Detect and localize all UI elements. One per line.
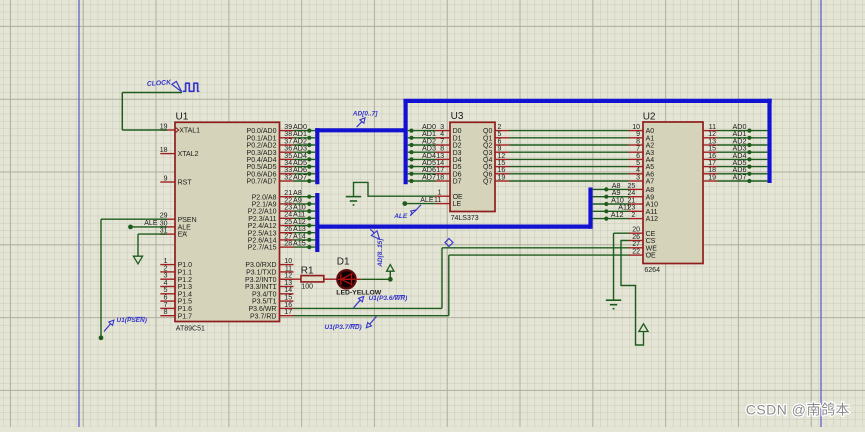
svg-text:9: 9: [498, 146, 502, 153]
svg-text:A12: A12: [646, 216, 659, 223]
svg-text:10: 10: [284, 258, 292, 265]
svg-text:XTAL2: XTAL2: [178, 151, 199, 158]
svg-text:18: 18: [708, 167, 716, 174]
svg-text:36: 36: [284, 146, 292, 153]
svg-text:P1.7: P1.7: [178, 313, 193, 320]
svg-text:3: 3: [636, 174, 640, 181]
svg-text:ALE: ALE: [178, 225, 192, 232]
svg-text:P2.3/A11: P2.3/A11: [248, 216, 276, 223]
svg-text:P0.6/AD6: P0.6/AD6: [247, 171, 277, 178]
svg-text:4: 4: [164, 280, 168, 287]
svg-text:13: 13: [708, 138, 716, 145]
svg-text:7: 7: [440, 138, 444, 145]
svg-text:10: 10: [632, 124, 640, 131]
svg-text:17: 17: [436, 167, 444, 174]
svg-text:ALE: ALE: [144, 220, 158, 227]
svg-text:R1: R1: [301, 265, 314, 276]
svg-text:2: 2: [164, 265, 168, 272]
svg-text:A4: A4: [646, 157, 655, 164]
svg-text:6: 6: [498, 138, 502, 145]
svg-text:P2.2/A10: P2.2/A10: [248, 209, 277, 216]
svg-text:ALE: ALE: [420, 197, 434, 204]
svg-text:22: 22: [632, 249, 640, 256]
svg-text:P1.4: P1.4: [178, 291, 193, 298]
svg-text:Q0: Q0: [483, 128, 492, 135]
svg-text:P3.7/RD: P3.7/RD: [250, 313, 276, 320]
svg-text:6: 6: [636, 153, 640, 160]
svg-text:23: 23: [284, 205, 292, 212]
svg-text:U3: U3: [451, 111, 464, 122]
svg-text:33: 33: [284, 167, 292, 174]
svg-text:5: 5: [498, 131, 502, 138]
svg-text:CS: CS: [646, 238, 656, 245]
svg-text:AD[8..15]: AD[8..15]: [377, 238, 384, 268]
svg-text:26: 26: [632, 234, 640, 241]
svg-text:Q7: Q7: [483, 179, 492, 186]
svg-text:74LS373: 74LS373: [451, 215, 479, 222]
svg-text:P0.5/AD5: P0.5/AD5: [247, 164, 277, 171]
svg-text:28: 28: [284, 241, 292, 248]
svg-text:11: 11: [709, 124, 716, 131]
svg-text:16: 16: [284, 302, 292, 309]
svg-text:1: 1: [437, 190, 441, 197]
svg-text:XTAL1: XTAL1: [179, 128, 200, 135]
svg-text:15: 15: [498, 160, 506, 167]
svg-text:13: 13: [284, 280, 292, 287]
svg-text:1: 1: [164, 258, 168, 265]
svg-text:26: 26: [284, 226, 292, 233]
svg-text:37: 37: [284, 138, 292, 145]
svg-text:17: 17: [708, 160, 716, 167]
svg-text:21: 21: [284, 190, 292, 197]
svg-text:P0.7/AD7: P0.7/AD7: [247, 179, 277, 186]
svg-text:D5: D5: [453, 164, 462, 171]
svg-text:7: 7: [164, 302, 168, 309]
svg-text:P1.5: P1.5: [178, 299, 193, 306]
svg-text:Q2: Q2: [483, 143, 492, 150]
svg-text:14: 14: [436, 160, 444, 167]
svg-text:D6: D6: [453, 171, 462, 178]
svg-text:U1: U1: [176, 111, 189, 122]
svg-text:38: 38: [284, 131, 292, 138]
svg-text:8: 8: [636, 138, 640, 145]
svg-text:Q5: Q5: [483, 164, 492, 171]
svg-text:U1(P3.7/RD): U1(P3.7/RD): [325, 324, 362, 331]
svg-text:19: 19: [498, 174, 506, 181]
svg-text:25: 25: [628, 183, 636, 190]
svg-text:P0.1/AD1: P0.1/AD1: [247, 135, 277, 142]
svg-text:5: 5: [164, 287, 168, 294]
svg-text:WE: WE: [646, 245, 658, 252]
svg-text:P1.1: P1.1: [178, 270, 193, 277]
svg-text:P1.2: P1.2: [178, 277, 193, 284]
svg-text:Q3: Q3: [483, 150, 492, 157]
svg-text:27: 27: [632, 241, 640, 248]
svg-text:9: 9: [164, 175, 168, 182]
svg-text:OE: OE: [453, 194, 463, 201]
svg-text:P1.3: P1.3: [178, 284, 193, 291]
svg-text:A8: A8: [646, 187, 655, 194]
svg-text:P2.0/A8: P2.0/A8: [252, 194, 277, 201]
svg-text:P3.1/TXD: P3.1/TXD: [246, 270, 276, 277]
svg-text:Q6: Q6: [483, 171, 492, 178]
svg-text:5: 5: [636, 160, 640, 167]
svg-text:11: 11: [285, 265, 292, 272]
svg-text:P3.0/RXD: P3.0/RXD: [245, 262, 276, 269]
svg-text:A15: A15: [293, 239, 306, 248]
svg-text:34: 34: [284, 160, 292, 167]
svg-text:17: 17: [284, 309, 292, 316]
svg-text:6: 6: [164, 295, 168, 302]
svg-text:RST: RST: [178, 180, 193, 187]
svg-text:P0.3/AD3: P0.3/AD3: [247, 150, 277, 157]
svg-text:A0: A0: [646, 128, 655, 135]
svg-text:AD7: AD7: [422, 172, 436, 181]
svg-text:P0.2/AD2: P0.2/AD2: [247, 143, 277, 150]
svg-text:9: 9: [636, 131, 640, 138]
svg-text:D7: D7: [453, 179, 462, 186]
svg-text:U1(P3.6/WR): U1(P3.6/WR): [369, 295, 408, 302]
svg-text:A9: A9: [646, 194, 655, 201]
svg-text:24: 24: [628, 190, 636, 197]
svg-text:D4: D4: [453, 157, 462, 164]
svg-text:D0: D0: [453, 128, 462, 135]
svg-text:P3.3/INT1: P3.3/INT1: [245, 284, 277, 291]
svg-text:12: 12: [708, 131, 716, 138]
svg-text:A6: A6: [646, 171, 655, 178]
svg-text:P2.4/A12: P2.4/A12: [248, 223, 277, 230]
svg-text:AD7: AD7: [733, 172, 747, 181]
svg-text:A11: A11: [646, 209, 658, 216]
svg-text:19: 19: [708, 174, 716, 181]
svg-text:P3.2/INT0: P3.2/INT0: [245, 277, 277, 284]
svg-text:P0.0/AD0: P0.0/AD0: [247, 128, 277, 135]
svg-text:D1: D1: [337, 256, 350, 267]
svg-text:A12: A12: [611, 210, 624, 219]
svg-text:2: 2: [631, 212, 635, 219]
svg-text:16: 16: [498, 167, 506, 174]
svg-text:D1: D1: [453, 135, 462, 142]
svg-text:39: 39: [284, 124, 292, 131]
svg-text:Q1: Q1: [483, 135, 492, 142]
svg-text:CE: CE: [646, 231, 656, 238]
svg-text:3: 3: [440, 124, 444, 131]
svg-text:100: 100: [301, 284, 313, 291]
svg-text:20: 20: [632, 227, 640, 234]
svg-text:P0.4/AD4: P0.4/AD4: [247, 157, 277, 164]
svg-text:18: 18: [436, 174, 444, 181]
svg-text:P3.5/T1: P3.5/T1: [252, 299, 277, 306]
svg-text:ALE: ALE: [393, 213, 408, 220]
svg-text:PSEN: PSEN: [178, 217, 197, 224]
svg-text:32: 32: [284, 174, 292, 181]
svg-text:22: 22: [284, 197, 292, 204]
svg-text:CSDN @南鸽本: CSDN @南鸽本: [746, 402, 850, 418]
svg-text:D2: D2: [453, 143, 462, 150]
svg-text:AT89C51: AT89C51: [176, 326, 205, 333]
svg-text:7: 7: [636, 146, 640, 153]
svg-text:D3: D3: [453, 150, 462, 157]
svg-text:P1.0: P1.0: [178, 262, 193, 269]
svg-text:3: 3: [164, 273, 168, 280]
svg-text:18: 18: [160, 147, 168, 154]
svg-text:U2: U2: [643, 111, 656, 122]
svg-text:14: 14: [284, 287, 292, 294]
svg-text:P2.7/A15: P2.7/A15: [248, 245, 277, 252]
svg-text:LE: LE: [453, 201, 462, 208]
svg-text:12: 12: [498, 153, 506, 160]
svg-text:AD[0..7]: AD[0..7]: [352, 111, 378, 118]
svg-text:2: 2: [498, 124, 502, 131]
svg-text:15: 15: [708, 146, 716, 153]
svg-text:EA: EA: [178, 232, 188, 239]
svg-text:27: 27: [284, 233, 292, 240]
svg-text:4: 4: [440, 131, 444, 138]
svg-text:25: 25: [284, 219, 292, 226]
svg-text:13: 13: [436, 153, 444, 160]
svg-text:P2.1/A9: P2.1/A9: [252, 202, 277, 209]
svg-text:A10: A10: [646, 202, 659, 209]
svg-text:35: 35: [284, 153, 292, 160]
svg-text:A2: A2: [646, 143, 655, 150]
svg-text:P3.6/WR: P3.6/WR: [248, 306, 276, 313]
svg-text:16: 16: [708, 153, 716, 160]
svg-text:15: 15: [284, 295, 292, 302]
svg-text:8: 8: [164, 309, 168, 316]
svg-text:AD7: AD7: [293, 172, 307, 181]
svg-text:4: 4: [636, 167, 640, 174]
svg-text:6264: 6264: [644, 267, 660, 274]
svg-text:P3.4/T0: P3.4/T0: [252, 291, 277, 298]
svg-text:OE: OE: [646, 253, 656, 260]
svg-text:8: 8: [440, 146, 444, 153]
svg-text:Q4: Q4: [483, 157, 492, 164]
svg-text:U1(PSEN): U1(PSEN): [117, 317, 147, 324]
svg-text:P2.6/A14: P2.6/A14: [248, 238, 277, 245]
svg-text:24: 24: [284, 212, 292, 219]
svg-text:A7: A7: [646, 179, 655, 186]
svg-text:P1.6: P1.6: [178, 306, 193, 313]
svg-text:A3: A3: [646, 150, 655, 157]
svg-text:P2.5/A13: P2.5/A13: [248, 230, 277, 237]
svg-text:A1: A1: [646, 135, 655, 142]
svg-text:A5: A5: [646, 164, 655, 171]
